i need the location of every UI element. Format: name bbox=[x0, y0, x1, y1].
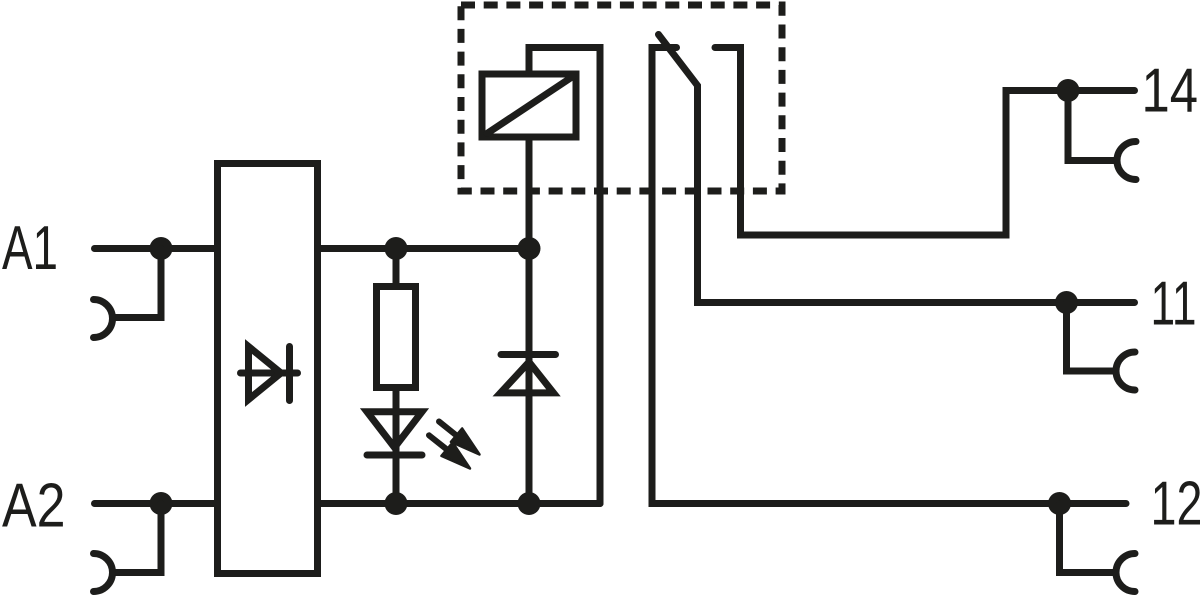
wire A1 horizontal bbox=[95, 245, 220, 252]
LED D2 bbox=[367, 412, 422, 455]
LED arrow 1 bbox=[439, 422, 480, 455]
svg-text:14: 14 bbox=[1142, 57, 1199, 126]
terminal clamp 12 bbox=[1116, 554, 1135, 592]
wire A1 row mid bbox=[318, 245, 530, 252]
terminal clamp A1 bbox=[94, 300, 113, 338]
protection block U1 bbox=[218, 164, 318, 574]
LED arrow 2 bbox=[429, 435, 470, 468]
diode D1 (in block) bbox=[241, 347, 298, 401]
wire terminal 14 stub bbox=[1068, 91, 1115, 161]
node 12 bbox=[1048, 492, 1071, 515]
wire A1 terminal riser bbox=[114, 249, 161, 318]
terminal clamp 11 bbox=[1116, 352, 1135, 390]
contact NO fixed + wire to 14 bbox=[715, 48, 1135, 236]
svg-text:12: 12 bbox=[1151, 470, 1200, 539]
wire A2 terminal riser bbox=[114, 504, 161, 573]
svg-text:A1: A1 bbox=[2, 214, 58, 283]
relay outline dashed box bbox=[461, 5, 782, 191]
freewheel diode D3 bbox=[501, 355, 556, 393]
contact NC fixed + wire to 12 bbox=[652, 48, 1126, 504]
node junction A1 bbox=[150, 237, 173, 260]
wire A2 horizontal bbox=[95, 500, 220, 507]
terminal clamp A2 bbox=[94, 554, 113, 592]
node resistor bottom bbox=[385, 492, 408, 515]
wire coil/diode branch bbox=[526, 249, 533, 504]
node resistor top bbox=[385, 237, 408, 260]
node 14 bbox=[1057, 79, 1080, 102]
svg-text:11: 11 bbox=[1151, 270, 1197, 339]
wire coil bottom bbox=[526, 137, 533, 249]
resistor R1 bbox=[377, 287, 416, 388]
wire terminal 12 stub bbox=[1060, 504, 1115, 573]
wire coil top loop bbox=[529, 48, 600, 504]
svg-text:A2: A2 bbox=[2, 472, 66, 541]
node junction A2 bbox=[150, 492, 173, 515]
wire terminal 11 stub bbox=[1067, 303, 1115, 372]
terminal clamp 14 bbox=[1117, 142, 1136, 180]
contact blade + wire to 11 bbox=[659, 35, 1135, 303]
node coil/diode top bbox=[518, 237, 541, 260]
node 11 bbox=[1055, 291, 1078, 314]
wire resistor/LED branch bbox=[393, 249, 400, 504]
node diode bottom bbox=[518, 492, 541, 515]
wire A2 row mid bbox=[318, 500, 601, 507]
relay coil K1 bbox=[482, 74, 576, 137]
